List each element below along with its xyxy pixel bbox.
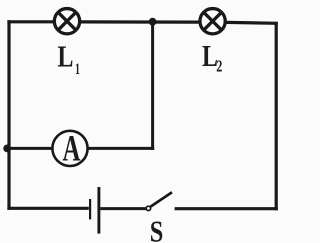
junction node on top wire xyxy=(149,18,157,26)
wire: middle branch vertical riser xyxy=(151,22,154,150)
wire: top left segment (corner to lamp L1) xyxy=(7,20,53,23)
svg-text:A: A xyxy=(63,127,81,168)
wire: top middle segment (L1 to L2 through junction) xyxy=(81,20,199,23)
svg-text:1: 1 xyxy=(75,60,80,78)
wire: middle branch horizontal right (ammeter to riser) xyxy=(89,147,155,150)
wire: right vertical side xyxy=(275,22,278,210)
wire: bottom middle segment (battery to switch) xyxy=(100,207,146,210)
switch S: pivot circle xyxy=(146,206,150,210)
wire: bottom left segment (corner to battery) xyxy=(7,207,88,210)
junction node on left wire xyxy=(3,145,11,153)
svg-text:S: S xyxy=(150,214,164,243)
battery cell: short negative plate xyxy=(89,199,91,219)
ammeter A xyxy=(52,127,87,168)
battery cell: long positive plate xyxy=(97,187,100,234)
svg-text:L: L xyxy=(202,38,218,73)
switch S: lever arm xyxy=(151,192,172,206)
svg-text:L: L xyxy=(58,38,74,73)
svg-text:2: 2 xyxy=(216,58,222,76)
wire: middle branch horizontal left (node to ammeter) xyxy=(7,147,52,150)
label L2 xyxy=(202,38,222,76)
wire: top right segment (L2 to right corner) xyxy=(227,21,278,25)
lamp L1 xyxy=(54,9,79,34)
wire: bottom right segment (switch to right corner) xyxy=(175,207,278,210)
label L1 xyxy=(58,38,80,77)
wire: left vertical side xyxy=(7,20,10,210)
lamp L2 xyxy=(200,9,225,34)
